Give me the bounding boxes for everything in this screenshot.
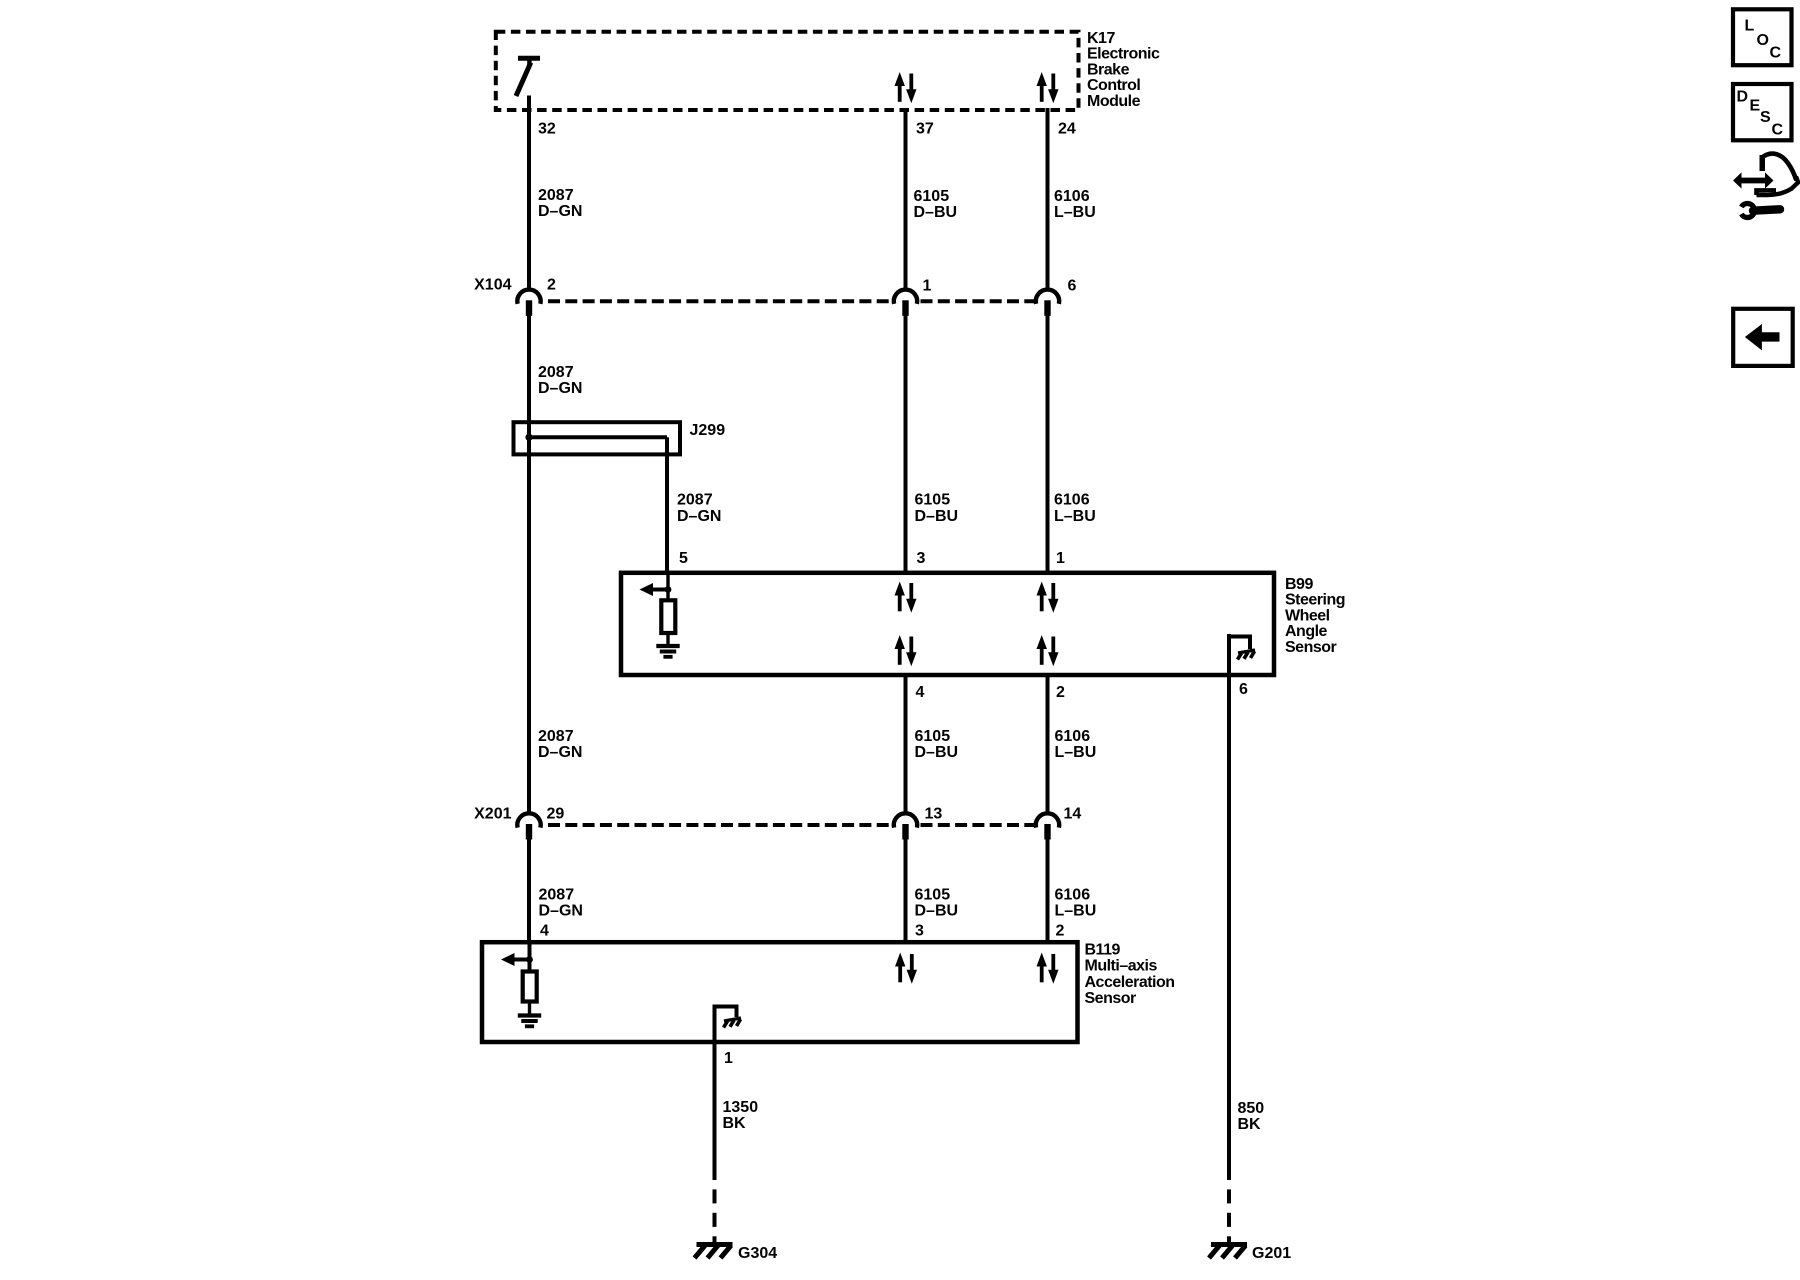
svg-text:3: 3 bbox=[917, 550, 926, 567]
svg-text:Sensor: Sensor bbox=[1285, 639, 1337, 656]
wire 6106 L-BU from K17 pin 24 to X104 bbox=[1046, 108, 1050, 290]
svg-text:37: 37 bbox=[916, 121, 934, 138]
B99 arrow pair bottom row at pin 2 bbox=[1037, 635, 1059, 666]
wire 2087 D-GN from J299 to B99 pin 5 bbox=[665, 437, 669, 573]
svg-text:D–BU: D–BU bbox=[915, 903, 959, 920]
connector X104 dashed line left span bbox=[548, 299, 891, 303]
B119 label bbox=[1085, 942, 1175, 1008]
B99 label bbox=[1285, 576, 1345, 656]
svg-text:24: 24 bbox=[1058, 121, 1076, 138]
wire 6105 D-BU from K17 pin 37 to X104 bbox=[904, 108, 908, 290]
B99 arrow pair bottom row at pin 4 bbox=[895, 635, 917, 666]
svg-text:Steering: Steering bbox=[1285, 592, 1345, 609]
svg-text:L: L bbox=[1745, 18, 1755, 35]
svg-text:D–GN: D–GN bbox=[538, 744, 582, 761]
B99 arrow pair top row at pin 1 bbox=[1037, 582, 1059, 613]
svg-text:J299: J299 bbox=[690, 422, 726, 439]
svg-text:X201: X201 bbox=[474, 806, 511, 823]
svg-text:32: 32 bbox=[538, 121, 556, 138]
svg-text:K17: K17 bbox=[1087, 30, 1115, 47]
B99 internal chassis ground rake bbox=[1238, 650, 1256, 660]
wire 6106 L-BU from X201 to B119 pin 2 bbox=[1046, 838, 1050, 942]
connector X201 dashed line right span bbox=[921, 823, 1035, 827]
svg-text:1: 1 bbox=[1056, 550, 1065, 567]
arrow pair at K17 pin 24 bbox=[1037, 72, 1059, 103]
svg-text:6106: 6106 bbox=[1055, 887, 1091, 904]
svg-text:Angle: Angle bbox=[1285, 623, 1328, 640]
ground G304 bbox=[695, 1245, 733, 1259]
svg-text:G304: G304 bbox=[738, 1245, 777, 1262]
svg-text:D: D bbox=[1737, 89, 1749, 106]
svg-text:2087: 2087 bbox=[539, 887, 575, 904]
svg-text:C: C bbox=[1770, 45, 1782, 62]
svg-text:Multi–axis: Multi–axis bbox=[1085, 958, 1158, 975]
wire 6105 D-BU from X104 to B99 pin 3 bbox=[904, 314, 908, 573]
svg-text:L–BU: L–BU bbox=[1055, 903, 1097, 920]
svg-text:6: 6 bbox=[1068, 278, 1077, 295]
wire 1350 BK from B119 pin 1 bbox=[713, 1005, 717, 1181]
B119 internal arrow left at pin 4 bbox=[501, 953, 533, 966]
B119 internal chassis ground rake bbox=[724, 1018, 742, 1028]
connector X104 pin 1 bbox=[894, 290, 917, 316]
svg-text:L–BU: L–BU bbox=[1055, 744, 1097, 761]
B99 internal ground hook at pin 6 bbox=[1229, 637, 1250, 650]
svg-text:D–BU: D–BU bbox=[915, 508, 959, 525]
svg-text:Module: Module bbox=[1087, 93, 1141, 110]
svg-text:850: 850 bbox=[1238, 1100, 1265, 1117]
svg-text:6105: 6105 bbox=[915, 728, 951, 745]
connector X201 pin 13 bbox=[894, 813, 917, 839]
wire 2087 D-GN from X104 to splice J299 bbox=[527, 314, 531, 422]
B99 internal arrow left at pin 5 bbox=[640, 583, 672, 596]
svg-text:1: 1 bbox=[923, 278, 932, 295]
svg-text:4: 4 bbox=[916, 684, 925, 701]
B99 internal signal ground bbox=[656, 646, 679, 657]
svg-text:D–BU: D–BU bbox=[915, 744, 959, 761]
svg-text:Acceleration: Acceleration bbox=[1085, 974, 1175, 991]
K17 label bbox=[1087, 30, 1160, 110]
svg-text:4: 4 bbox=[540, 923, 549, 940]
svg-text:1350: 1350 bbox=[723, 1099, 759, 1116]
svg-text:X104: X104 bbox=[474, 277, 511, 294]
svg-text:6105: 6105 bbox=[914, 188, 950, 205]
connector X104 dashed line right span bbox=[921, 299, 1035, 303]
connector X104 pin 2 bbox=[517, 290, 540, 316]
svg-text:D–GN: D–GN bbox=[538, 203, 582, 220]
svg-text:B119: B119 bbox=[1085, 942, 1121, 959]
wire 6105 D-BU from X201 to B119 pin 3 bbox=[904, 838, 908, 942]
svg-text:Sensor: Sensor bbox=[1085, 990, 1137, 1007]
wire 6105 D-BU from B99 pin 4 to X201 bbox=[904, 675, 908, 813]
B119 internal wire pin4 bbox=[528, 942, 532, 972]
connector X201 dashed line left span bbox=[548, 823, 891, 827]
connector X104 pin 6 bbox=[1036, 290, 1059, 316]
wire 1350 dashed section bbox=[713, 1189, 717, 1203]
svg-text:2087: 2087 bbox=[677, 492, 713, 509]
svg-text:1: 1 bbox=[724, 1050, 733, 1067]
wire 850 BK from B99 pin 6 bbox=[1227, 634, 1231, 1180]
icon LOC box bbox=[1733, 9, 1792, 65]
connector X201 pin 14 bbox=[1036, 813, 1059, 839]
svg-text:BK: BK bbox=[723, 1115, 747, 1132]
icon DESC box bbox=[1733, 84, 1792, 140]
wire 6106 L-BU from B99 pin 2 to X201 bbox=[1046, 675, 1050, 813]
svg-text:6105: 6105 bbox=[915, 492, 951, 509]
svg-text:D–GN: D–GN bbox=[538, 380, 582, 397]
wire 2087 D-GN from K17 pin 32 to X104 bbox=[527, 96, 531, 290]
svg-text:14: 14 bbox=[1064, 806, 1082, 823]
svg-text:D–GN: D–GN bbox=[677, 508, 721, 525]
svg-text:C: C bbox=[1772, 121, 1784, 138]
connector X201 pin 29 bbox=[517, 813, 540, 839]
svg-text:O: O bbox=[1757, 32, 1769, 49]
svg-text:2: 2 bbox=[547, 277, 556, 294]
B99 internal resistor bbox=[661, 590, 675, 646]
svg-text:Brake: Brake bbox=[1087, 61, 1130, 78]
svg-text:D–BU: D–BU bbox=[914, 204, 958, 221]
wire through J299 continuing down bbox=[527, 422, 531, 813]
svg-text:6106: 6106 bbox=[1054, 492, 1090, 509]
wire 6106 L-BU from X104 to B99 pin 1 bbox=[1046, 314, 1050, 573]
wire 2087 D-GN from X201 to B119 pin 4 bbox=[527, 838, 531, 942]
svg-text:2: 2 bbox=[1056, 923, 1065, 940]
svg-text:3: 3 bbox=[915, 923, 924, 940]
ground G201 bbox=[1209, 1245, 1247, 1259]
svg-text:6105: 6105 bbox=[915, 887, 951, 904]
svg-text:2087: 2087 bbox=[538, 364, 574, 381]
svg-text:6106: 6106 bbox=[1055, 728, 1091, 745]
B99 arrow pair top row at pin 3 bbox=[895, 582, 917, 613]
splice J299 bbox=[514, 422, 681, 454]
sensor B99 Steering Wheel Angle Sensor box bbox=[621, 573, 1274, 675]
icon back arrow box bbox=[1733, 309, 1793, 366]
svg-text:Wheel: Wheel bbox=[1285, 607, 1330, 624]
svg-text:2087: 2087 bbox=[538, 728, 574, 745]
B119 internal ground hook at pin 1 bbox=[715, 1007, 737, 1018]
svg-text:L–BU: L–BU bbox=[1054, 508, 1096, 525]
svg-text:29: 29 bbox=[547, 806, 565, 823]
svg-text:BK: BK bbox=[1238, 1116, 1262, 1133]
sensor B119 Multi-axis Acceleration Sensor box bbox=[482, 942, 1078, 1042]
svg-text:L–BU: L–BU bbox=[1054, 204, 1096, 221]
svg-text:B99: B99 bbox=[1285, 576, 1313, 593]
wire 850 dashed section bbox=[1227, 1189, 1231, 1203]
B119 arrow pair at pin 2 bbox=[1037, 953, 1059, 984]
B119 internal resistor bbox=[523, 972, 537, 1016]
svg-text:6: 6 bbox=[1239, 681, 1248, 698]
switch S inside K17 bbox=[516, 58, 540, 96]
svg-text:D–GN: D–GN bbox=[539, 903, 583, 920]
svg-text:Electronic: Electronic bbox=[1087, 46, 1160, 63]
module K17 Electronic Brake Control Module dashed box bbox=[496, 32, 1079, 110]
arrow pair at K17 pin 37 bbox=[895, 72, 917, 103]
svg-text:6106: 6106 bbox=[1054, 188, 1090, 205]
svg-text:13: 13 bbox=[925, 806, 943, 823]
B119 arrow pair at pin 3 bbox=[895, 953, 917, 984]
svg-text:S: S bbox=[1760, 109, 1771, 126]
svg-text:2087: 2087 bbox=[538, 187, 574, 204]
svg-text:5: 5 bbox=[679, 550, 688, 567]
svg-text:E: E bbox=[1750, 97, 1761, 114]
svg-text:G201: G201 bbox=[1252, 1245, 1291, 1262]
B119 internal signal ground bbox=[518, 1016, 541, 1027]
svg-text:Control: Control bbox=[1087, 77, 1140, 94]
icon testing wrench with arrows bbox=[1733, 154, 1798, 218]
svg-text:2: 2 bbox=[1056, 684, 1065, 701]
